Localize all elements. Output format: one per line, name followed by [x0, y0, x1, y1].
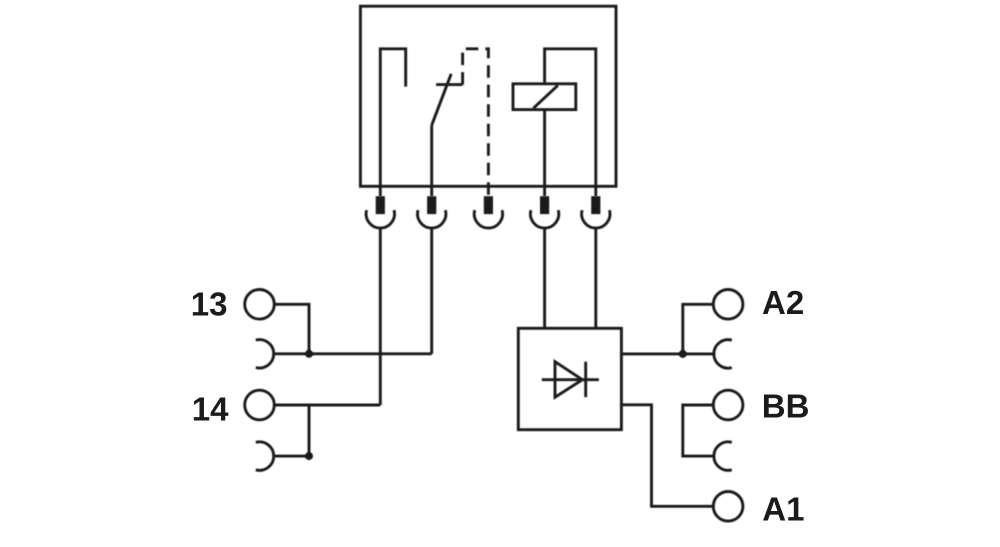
plug contact 1 [366, 196, 394, 228]
wire pin2 to terminal 13 bridge [430, 228, 433, 354]
svg-text:14: 14 [192, 390, 229, 427]
junction dot 13 [305, 350, 313, 358]
terminal socket A2 lower level [714, 340, 732, 368]
bridge wire 13-row to pin2 [274, 352, 432, 355]
svg-text:A1: A1 [762, 490, 804, 527]
terminal circle 14 [245, 390, 275, 420]
wire to 14 lower socket [274, 455, 309, 458]
NO contact moving blade (pin 2 leg) [432, 74, 463, 196]
junction dot A2 [679, 350, 687, 358]
wire A2 to junction [683, 304, 714, 354]
junction dot 14 [305, 452, 313, 460]
wire pin5 to diode box [594, 228, 597, 328]
plug contact 3 [474, 196, 502, 228]
terminal socket BB lower level [714, 442, 732, 470]
terminal circle A1 [713, 492, 743, 522]
wire diode box to A2 row [621, 352, 714, 355]
input circuit box [518, 328, 621, 429]
terminal socket 14 lower level [256, 442, 274, 470]
svg-text:BB: BB [762, 387, 810, 424]
branch wire down to 14 lower level [308, 405, 311, 456]
relay coil [513, 84, 576, 110]
contact fixed-terminal hook (pin 1 leg) [380, 49, 405, 196]
diode D1 [542, 362, 599, 398]
svg-text:13: 13 [191, 285, 228, 322]
coil terminal wires (pin 4 leg and loop to pin 5) [545, 49, 596, 196]
plug contact 4 [530, 196, 558, 228]
wire diode box to A1 [621, 405, 713, 507]
terminal circle 13 [245, 290, 275, 320]
terminal circle BB [713, 390, 743, 420]
terminal socket 13 lower level [256, 340, 274, 368]
mechanical linkage (dashed) [463, 49, 489, 196]
wire 14 to pin1 [274, 404, 380, 407]
svg-text:A2: A2 [762, 284, 804, 321]
wire pin4 to diode box [543, 228, 546, 328]
bridge wire BB levels [683, 405, 714, 456]
terminal circle A2 [713, 290, 743, 320]
plug contact 5 [582, 196, 610, 228]
wire 13 to junction [274, 304, 309, 354]
plug contact 2 [418, 196, 446, 228]
relay module outline [360, 6, 616, 186]
wire pin1 to terminal 14 row [379, 228, 382, 405]
